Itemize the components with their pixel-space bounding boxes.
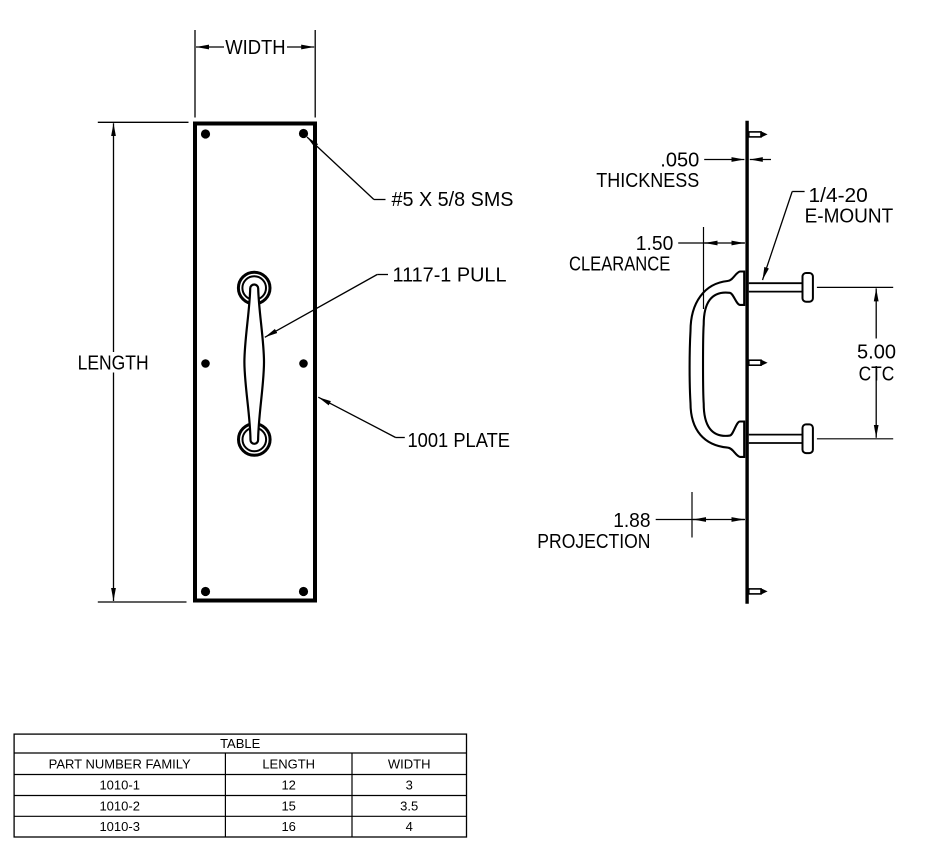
CTC dimension line upper segment with arrow <box>875 288 877 338</box>
CTC dimension line lower segment with arrow <box>875 366 877 438</box>
1.50 arrow left <box>705 242 717 244</box>
WIDTH dimension line left segment with arrow <box>196 46 224 48</box>
pull grip spindle front view <box>244 285 264 444</box>
svg-text:1010-2: 1010-2 <box>99 799 139 814</box>
svg-text:TABLE: TABLE <box>220 736 261 751</box>
screw hole top-right <box>299 129 308 138</box>
svg-text:1010-3: 1010-3 <box>99 819 139 834</box>
svg-text:#5 X 5/8 SMS: #5 X 5/8 SMS <box>392 188 514 211</box>
table row line under title <box>14 752 466 754</box>
top mount post cap <box>803 273 813 302</box>
svg-text:1117-1 PULL: 1117-1 PULL <box>393 264 507 287</box>
table row line under row2 <box>14 815 466 817</box>
leader dash for pull label <box>377 274 388 276</box>
screw hole mid-left <box>201 359 210 368</box>
LENGTH extension line bottom <box>98 601 187 603</box>
WIDTH extension line right <box>314 30 316 118</box>
side screw bottom tip <box>761 588 768 594</box>
side screw bottom shank <box>749 589 761 594</box>
CTC extension line bottom <box>817 438 893 440</box>
table outer border <box>14 734 466 837</box>
pull top ferrule inner ring <box>242 276 266 300</box>
svg-text:THICKNESS: THICKNESS <box>596 169 699 192</box>
1.88 PROJECTION dimension line <box>656 519 745 521</box>
svg-text:16: 16 <box>281 819 295 834</box>
svg-text:PROJECTION: PROJECTION <box>537 530 650 553</box>
pull top ferrule outer ring <box>238 272 270 304</box>
screw hole top-left <box>201 129 210 138</box>
svg-text:WIDTH: WIDTH <box>225 36 285 59</box>
svg-text:15: 15 <box>281 799 295 814</box>
screw hole bottom-left <box>201 587 210 596</box>
WIDTH extension line left <box>194 30 196 118</box>
svg-text:LENGTH: LENGTH <box>262 757 315 772</box>
svg-text:12: 12 <box>281 778 295 793</box>
WIDTH dimension line right segment with arrow <box>287 46 314 48</box>
leader arrow to top-right screw <box>307 137 374 200</box>
svg-text:WIDTH: WIDTH <box>388 757 431 772</box>
front view plate outline <box>195 124 315 601</box>
side screw middle shank <box>749 360 761 365</box>
1.50 arrow right <box>732 242 744 244</box>
CTC extension line top <box>817 286 893 288</box>
LENGTH dimension line lower segment with arrow <box>113 373 115 602</box>
.050 THICKNESS dimension left line with arrow <box>704 159 744 161</box>
svg-text:PART NUMBER FAMILY: PART NUMBER FAMILY <box>49 757 191 772</box>
leader dash for SMS label <box>374 199 386 201</box>
top mount post lower line <box>749 291 803 293</box>
table column line 2 <box>351 753 353 837</box>
svg-text:3.5: 3.5 <box>400 799 418 814</box>
projection extension line <box>691 492 693 538</box>
1.50 CLEARANCE dimension line <box>678 242 745 244</box>
side view plate edge <box>745 121 748 604</box>
pull bottom ferrule outer ring <box>239 424 271 456</box>
table row line under row1 <box>14 795 466 797</box>
pull bottom ferrule inner ring <box>243 428 267 452</box>
screw hole mid-right <box>299 359 308 368</box>
svg-text:LENGTH: LENGTH <box>78 351 149 374</box>
table column line 1 <box>224 753 226 837</box>
1.88 arrow right <box>732 519 744 521</box>
bottom mount post lower line <box>749 442 803 444</box>
LENGTH dimension line upper segment with arrow <box>113 123 115 352</box>
svg-text:1010-1: 1010-1 <box>99 778 139 793</box>
1.88 arrow left <box>693 519 705 521</box>
svg-text:E-MOUNT: E-MOUNT <box>805 205 894 228</box>
.050 THICKNESS dimension right line with arrow <box>750 159 771 161</box>
leader dash for plate label <box>396 437 405 439</box>
top mount post upper line <box>749 282 803 284</box>
svg-text:5.00: 5.00 <box>857 340 896 363</box>
side screw top tip <box>761 131 768 137</box>
svg-text:1001 PLATE: 1001 PLATE <box>408 429 511 452</box>
clearance extension line <box>703 227 705 309</box>
LENGTH extension line top <box>98 121 189 123</box>
E-MOUNT leader arrow <box>763 192 793 281</box>
bottom mount post upper line <box>749 434 803 436</box>
leader arrow to pull grip <box>265 275 377 338</box>
side screw top shank <box>749 132 761 137</box>
svg-text:CLEARANCE: CLEARANCE <box>569 252 670 275</box>
table row line under header <box>14 774 466 776</box>
svg-text:4: 4 <box>406 819 413 834</box>
svg-text:3: 3 <box>406 778 413 793</box>
bottom mount post cap <box>803 424 813 453</box>
screw hole bottom-right <box>299 587 308 596</box>
svg-text:1.88: 1.88 <box>613 509 650 532</box>
leader arrow to plate edge <box>318 397 395 437</box>
E-MOUNT leader dash <box>792 191 804 193</box>
svg-text:CTC: CTC <box>859 362 895 385</box>
side screw middle tip <box>761 360 768 366</box>
side view handle outline <box>690 272 745 457</box>
